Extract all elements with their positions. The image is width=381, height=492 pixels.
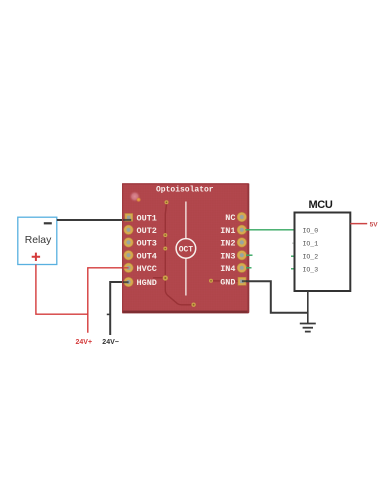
svg-text:NC: NC — [225, 213, 235, 223]
pad IN3 — [220, 251, 246, 262]
optoisolator board U1 — [122, 183, 249, 313]
wire MCU 5V — [350, 223, 367, 225]
label 24V- — [102, 339, 119, 346]
svg-text:24V−: 24V− — [102, 339, 119, 346]
pad IN2 — [220, 238, 246, 249]
wire relay minus to OUT1 — [57, 219, 128, 221]
wire MCU bottom to ground — [307, 291, 309, 324]
relay B1 — [18, 217, 57, 264]
svg-text:GND: GND — [220, 277, 235, 287]
svg-text:OUT4: OUT4 — [137, 251, 157, 261]
trace via to GND pad — [211, 280, 238, 282]
svg-text:24V+: 24V+ — [76, 339, 93, 346]
pad OUT4 — [124, 251, 157, 262]
svg-text:HVCC: HVCC — [137, 264, 157, 274]
svg-text:IN1: IN1 — [220, 226, 235, 236]
pad IN1 — [220, 225, 246, 236]
svg-text:IO_2: IO_2 — [303, 254, 319, 261]
svg-text:Optoisolator: Optoisolator — [156, 185, 214, 194]
svg-text:IO_1: IO_1 — [303, 241, 319, 248]
wire stub MCU IO_2 — [291, 255, 295, 257]
wire HGND to 24V- — [107, 282, 127, 335]
pad OUT1 — [125, 214, 157, 224]
svg-text:Relay: Relay — [25, 235, 52, 246]
pad GND — [220, 277, 246, 287]
pad IN4 — [220, 263, 246, 274]
label 5V — [370, 222, 379, 229]
wire tip IN1 over pad — [245, 229, 249, 231]
svg-text:MCU: MCU — [308, 199, 332, 211]
svg-text:IN4: IN4 — [220, 264, 235, 274]
trace to bottom via — [165, 278, 194, 305]
svg-text:HGND: HGND — [137, 278, 157, 288]
wire GND to MCU ground — [246, 281, 308, 313]
via mid1 — [163, 233, 167, 237]
svg-text:5V: 5V — [370, 222, 379, 229]
via mid2 — [163, 247, 167, 251]
wire IN1 to MCU IO_0 — [246, 229, 295, 231]
svg-text:OUT1: OUT1 — [137, 214, 157, 224]
via big left — [163, 275, 168, 280]
trace vertical via column — [165, 204, 166, 278]
MCU U2 — [295, 199, 351, 291]
LED D1 — [129, 191, 141, 202]
svg-text:IN2: IN2 — [220, 239, 235, 249]
wire tip HVCC over pad — [123, 267, 129, 269]
svg-text:OUT3: OUT3 — [137, 239, 157, 249]
svg-text:IO_0: IO_0 — [303, 227, 319, 234]
ground symbol — [300, 324, 316, 332]
via bottom — [191, 303, 195, 307]
trace to HGND — [153, 277, 165, 279]
pad OUT3 — [124, 238, 157, 249]
pad HGND — [124, 277, 157, 288]
svg-text:IO_3: IO_3 — [303, 266, 319, 273]
wire stub IN3 — [246, 254, 253, 256]
pad NC — [225, 212, 246, 223]
wire stub MCU IO_1 — [292, 242, 295, 244]
via top — [165, 200, 169, 204]
pad OUT2 — [124, 225, 157, 236]
wire stub IN4 — [246, 267, 252, 269]
svg-text:IN3: IN3 — [220, 251, 235, 261]
svg-text:OUT2: OUT2 — [137, 226, 157, 236]
via near GND — [209, 279, 213, 283]
pad HVCC — [124, 263, 157, 274]
svg-text:OCT: OCT — [179, 245, 194, 254]
silkscreen OCT symbol — [176, 202, 196, 296]
wire tip OUT1 over pad — [123, 219, 131, 221]
wire tip GND over pad — [242, 280, 247, 282]
wire relay plus to 24V+ rail — [36, 265, 88, 315]
wire tip HGND over pad — [123, 281, 129, 283]
wire stub MCU IO_3 — [291, 268, 295, 270]
wire HVCC to 24V+ — [88, 268, 127, 333]
label 24V+ — [76, 339, 93, 346]
